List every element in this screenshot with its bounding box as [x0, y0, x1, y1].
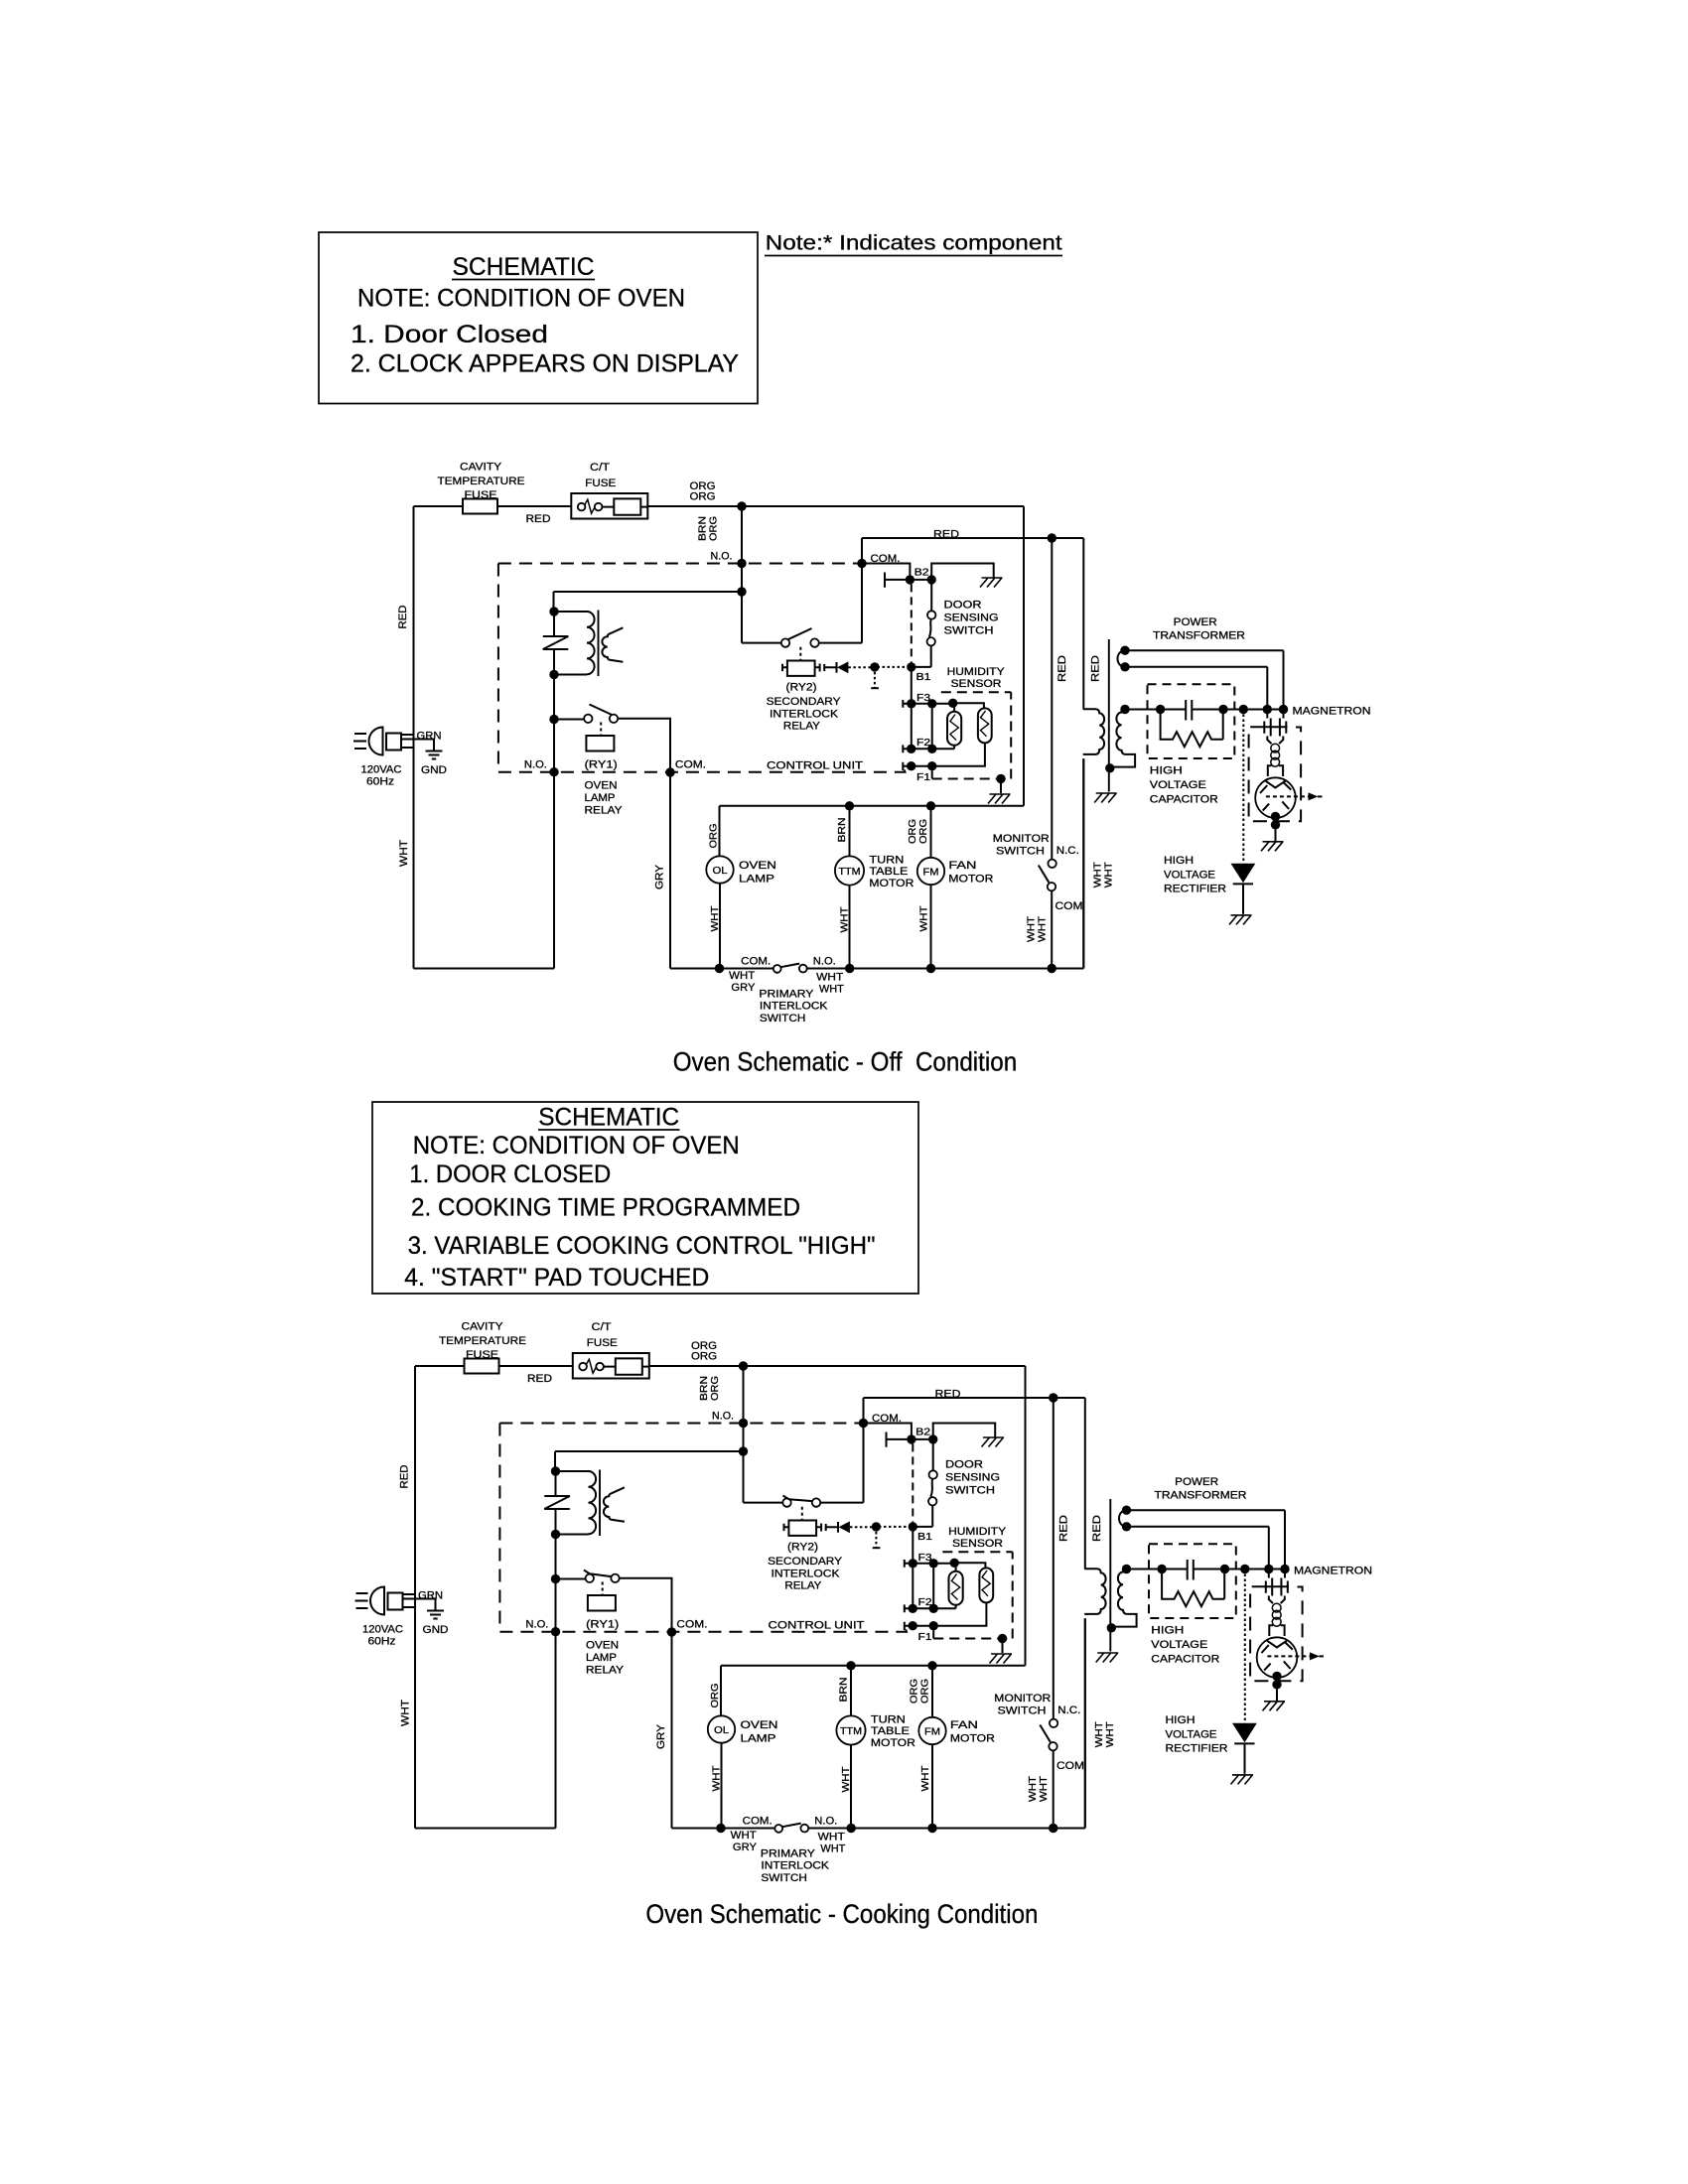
svg-text:MOTOR: MOTOR	[950, 1732, 995, 1744]
wire F2 row	[909, 1607, 956, 1609]
filament leads brace	[1119, 1510, 1127, 1527]
wire RT2 to F1 corner	[909, 1602, 987, 1625]
svg-text:GRY: GRY	[731, 982, 756, 994]
svg-text:WHT: WHT	[731, 1830, 757, 1842]
svg-text:RED: RED	[1058, 1515, 1070, 1542]
switch door sensing top contact	[927, 611, 935, 618]
svg-text:WHT: WHT	[819, 984, 844, 996]
svg-text:VOLTAGE: VOLTAGE	[1150, 779, 1206, 791]
wire outer box right edge	[1025, 1366, 1027, 1666]
wire HV line	[1125, 709, 1284, 711]
svg-text:SCHEMATIC: SCHEMATIC	[538, 1104, 679, 1132]
node cap left	[1157, 1565, 1166, 1573]
wire N.O. dashed line	[498, 563, 862, 565]
wire COM to B2 corner	[864, 1424, 912, 1439]
note box 2 border	[372, 1102, 918, 1294]
fuse F2 C/T fuse box	[573, 1353, 649, 1379]
wire N.O. dashed line	[499, 1423, 863, 1425]
thermistor RT2 capsule	[978, 708, 992, 743]
ground chassis B2	[980, 578, 1003, 588]
node relay line junction	[739, 1446, 748, 1455]
wire F3 to right capsule	[954, 1563, 985, 1568]
wire to RY1 contact	[554, 719, 584, 721]
switch monitor COM contact	[1049, 1742, 1056, 1750]
node N.O./BRN junction	[737, 559, 746, 568]
wire rail between fuses	[497, 505, 571, 507]
wire bottom-left rail	[414, 968, 555, 970]
svg-text:B2: B2	[915, 1427, 931, 1437]
wire rail between fuses	[499, 1365, 573, 1367]
wire junction to B1	[878, 666, 910, 668]
wire TTM drop upper	[850, 1666, 852, 1716]
wire rectifier to ground	[1244, 1743, 1246, 1773]
svg-text:HIGH: HIGH	[1166, 1714, 1196, 1726]
magnetron output arrow	[1266, 795, 1309, 797]
dashed vertical B2-B1	[911, 584, 913, 662]
svg-text:ORG: ORG	[709, 823, 720, 848]
magnetron cathode coil	[1271, 744, 1280, 752]
switch monitor blade	[1039, 866, 1050, 883]
svg-text:RED: RED	[935, 1389, 961, 1401]
node F2 mid	[929, 1604, 938, 1613]
RY2 left connector pin	[782, 664, 787, 671]
wire WHT right vertical	[1084, 1618, 1086, 1828]
svg-text:BRN: BRN	[698, 516, 709, 541]
switch RY2 blade closed	[783, 1496, 815, 1502]
RY2 actuator dashed stub	[799, 647, 801, 661]
magnetron filament terminals	[1250, 719, 1287, 737]
wire GRN to ground	[403, 1599, 436, 1610]
svg-text:SCHEMATIC: SCHEMATIC	[453, 253, 595, 281]
transformer T2 primary coil	[1084, 1569, 1105, 1614]
magnetron dashed box	[1250, 1587, 1303, 1682]
svg-text:TURN: TURN	[869, 854, 904, 866]
fuse element squiggle	[578, 503, 586, 511]
F2 connector pin	[903, 745, 907, 752]
wire F3 to right capsule	[953, 703, 984, 708]
F3 connector pin	[905, 1560, 909, 1568]
node COM junction GRY	[665, 767, 674, 776]
svg-text:RED: RED	[399, 1464, 411, 1488]
svg-text:CAVITY: CAVITY	[462, 1321, 504, 1333]
wire B2 row	[910, 579, 931, 581]
F3 connector pin	[903, 700, 907, 708]
wire outer box bottom edge	[720, 805, 1025, 807]
node OL rail junction	[715, 964, 724, 973]
capacitor C1 plates	[1186, 700, 1192, 721]
wire B2 to door switch	[932, 1443, 934, 1470]
wire RY1 to GRY corner	[620, 1578, 672, 1632]
switch door sensing blade	[929, 619, 931, 637]
node humidity ground junction	[996, 774, 1005, 783]
node F3 mid	[927, 699, 936, 708]
resistor R1 bleeder	[1162, 1570, 1224, 1607]
svg-text:OVEN: OVEN	[586, 1640, 619, 1652]
node N.O. bottom junction	[549, 767, 558, 776]
svg-text:Oven Schematic - Cooking Condi: Oven Schematic - Cooking Condition	[645, 1899, 1038, 1929]
switch RY2 left contact	[782, 1498, 790, 1506]
svg-text:MONITOR: MONITOR	[993, 833, 1050, 845]
wire monitor vertical	[1053, 1398, 1055, 1719]
node rail/BRN junction	[737, 501, 746, 510]
wire plug neutral to WHT vertical	[401, 747, 414, 749]
svg-text:WHT: WHT	[1027, 916, 1038, 942]
switch door sensing bottom contact	[927, 637, 935, 645]
node FM rail junction	[927, 1661, 936, 1670]
svg-text:GRN: GRN	[418, 1590, 443, 1602]
wire B1 to F3	[911, 671, 913, 699]
node B2 left	[906, 575, 914, 584]
switch RY1 left contact	[586, 1574, 594, 1582]
svg-text:INTERLOCK: INTERLOCK	[761, 1860, 829, 1872]
wire bottom rail left	[670, 968, 774, 970]
svg-text:N.C.: N.C.	[1057, 1705, 1080, 1716]
transformer T2 secondary coil	[1113, 709, 1135, 767]
svg-text:RELAY: RELAY	[585, 805, 624, 817]
svg-text:BRN: BRN	[837, 818, 848, 843]
svg-text:ORG: ORG	[710, 1376, 721, 1401]
svg-text:COM.: COM.	[741, 956, 771, 968]
wire B2 row	[912, 1438, 933, 1440]
magnetron diagonal ticks	[1262, 1642, 1293, 1671]
ground GND symbol	[427, 1611, 444, 1619]
wire rectifier vertical	[1244, 1570, 1246, 1723]
node monitor bottom junction	[1048, 964, 1056, 973]
svg-text:WHT: WHT	[1093, 862, 1104, 887]
wire FM drop upper	[930, 806, 932, 858]
wire RT1 to F2	[953, 746, 955, 750]
switch interlock left contact	[774, 965, 781, 973]
svg-text:TABLE: TABLE	[869, 866, 908, 878]
svg-text:WHT: WHT	[1094, 1721, 1105, 1747]
svg-text:2. COOKING TIME PROGRAMMED: 2. COOKING TIME PROGRAMMED	[411, 1193, 800, 1221]
wire B2 to chassis ground	[931, 564, 994, 580]
svg-text:CONTROL UNIT: CONTROL UNIT	[769, 1620, 865, 1632]
svg-text:INTERLOCK: INTERLOCK	[760, 1001, 828, 1013]
svg-text:ORG: ORG	[690, 491, 716, 503]
node N.O. bottom junction	[551, 1627, 560, 1636]
node HV secondary	[1120, 705, 1129, 714]
node monitor bottom junction	[1049, 1824, 1057, 1833]
switch RY1 blade open	[590, 705, 617, 718]
svg-text:ORG: ORG	[710, 1683, 721, 1707]
magnetron diagonal ticks	[1260, 782, 1291, 811]
svg-text:RED: RED	[527, 1373, 552, 1385]
wire door switch to B1 corner	[912, 646, 931, 667]
transformer T1 core	[599, 1470, 601, 1537]
wire filament feeds	[1267, 710, 1283, 745]
svg-text:WHT: WHT	[1028, 1776, 1039, 1802]
AC plug P1	[355, 1587, 403, 1615]
svg-text:ORG: ORG	[908, 819, 918, 844]
motor TTM circle	[835, 856, 864, 885]
node TTM rail junction	[845, 801, 854, 810]
wire magnetron to ground	[1275, 817, 1277, 842]
node magnetron box bottom	[1272, 1680, 1281, 1689]
svg-text:WHT: WHT	[816, 972, 843, 984]
wire top rail right	[649, 1365, 1026, 1367]
svg-text:3. VARIABLE COOKING CONTROL "H: 3. VARIABLE COOKING CONTROL "HIGH"	[408, 1232, 876, 1260]
svg-text:120VAC: 120VAC	[362, 1624, 403, 1636]
svg-text:WHT: WHT	[919, 906, 930, 932]
svg-text:ORG: ORG	[709, 516, 720, 541]
switch RY2 left contact	[781, 638, 789, 646]
svg-text:CAVITY: CAVITY	[460, 462, 502, 474]
svg-text:4. "START" PAD TOUCHED: 4. "START" PAD TOUCHED	[404, 1264, 709, 1292]
transformer T2 secondary coil	[1115, 1569, 1137, 1627]
svg-text:FUSE: FUSE	[587, 1337, 618, 1349]
node B2 left	[907, 1434, 915, 1443]
wire GRY vertical	[671, 1632, 673, 1829]
diode D2 HV rectifier	[1232, 1723, 1257, 1743]
wire HV line	[1127, 1569, 1286, 1570]
wire magnetron to ground	[1276, 1677, 1278, 1702]
svg-text:COM: COM	[1055, 900, 1083, 912]
ground chassis magnetron	[1261, 842, 1284, 852]
svg-text:RECTIFIER: RECTIFIER	[1164, 884, 1226, 895]
motor FM circle	[918, 1717, 945, 1744]
wire RT1 to F2	[955, 1605, 957, 1609]
transformer T1 core	[598, 611, 600, 677]
svg-text:TTM: TTM	[839, 867, 861, 878]
svg-text:VOLTAGE: VOLTAGE	[1164, 869, 1215, 881]
HV capacitor dashed box	[1148, 684, 1235, 758]
svg-text:RED: RED	[1091, 1515, 1103, 1542]
svg-text:SWITCH: SWITCH	[996, 846, 1045, 858]
wire humidity to ground	[1000, 779, 1002, 794]
wire relay coil feed	[555, 1451, 744, 1471]
wire GRN to ground	[401, 740, 434, 751]
wire TTM drop upper	[849, 806, 851, 857]
svg-text:MAGNETRON: MAGNETRON	[1294, 1566, 1372, 1577]
svg-text:(RY1): (RY1)	[585, 759, 618, 771]
svg-text:LAMP: LAMP	[586, 1652, 617, 1664]
svg-text:RED: RED	[526, 513, 551, 525]
lamp OL circle	[706, 856, 733, 883]
svg-text:MONITOR: MONITOR	[994, 1693, 1051, 1705]
node F2 left	[907, 745, 915, 753]
svg-text:GRN: GRN	[417, 731, 442, 743]
svg-text:C/T: C/T	[590, 462, 610, 474]
transformer T1 primary coil	[554, 612, 595, 675]
svg-text:N.O.: N.O.	[814, 1816, 837, 1828]
svg-text:TURN: TURN	[871, 1713, 906, 1725]
magnetron filament terminals	[1252, 1578, 1289, 1596]
svg-text:F2: F2	[918, 1597, 933, 1608]
svg-text:CONTROL UNIT: CONTROL UNIT	[767, 760, 863, 772]
svg-text:LAMP: LAMP	[741, 1732, 776, 1744]
control unit dashed bottom edge	[499, 1626, 907, 1632]
B2 connector pin	[885, 573, 906, 588]
wire plug hot to RED vertical	[403, 1593, 416, 1595]
svg-text:WHT: WHT	[820, 1843, 845, 1855]
svg-text:1. DOOR CLOSED: 1. DOOR CLOSED	[409, 1160, 611, 1188]
thermistor RT1 capsule	[947, 712, 961, 746]
node cap right	[1218, 705, 1227, 714]
node RY1 feed junction	[549, 715, 558, 724]
wire FM drop upper	[931, 1666, 933, 1717]
svg-text:FM: FM	[924, 1726, 940, 1737]
magnetron V notch	[1267, 1640, 1288, 1647]
wire RT2 to F1 corner	[907, 743, 985, 765]
svg-text:RELAY: RELAY	[784, 1580, 822, 1592]
wire F2 row	[907, 748, 954, 750]
RY2 left connector pin	[784, 1524, 789, 1531]
svg-text:OVEN: OVEN	[585, 780, 618, 792]
svg-text:HIGH: HIGH	[1164, 855, 1194, 867]
wire junction to B1	[879, 1526, 911, 1528]
node magnetron F lead	[1263, 705, 1272, 714]
wire RED right vertical	[1082, 538, 1084, 709]
svg-text:WHT: WHT	[1105, 1721, 1116, 1747]
wire RY2 to RED riser	[820, 1398, 863, 1503]
svg-text:NOTE: CONDITION OF OVEN: NOTE: CONDITION OF OVEN	[357, 285, 685, 313]
svg-text:VOLTAGE: VOLTAGE	[1151, 1639, 1207, 1651]
switch monitor COM contact	[1048, 883, 1055, 890]
svg-text:B1: B1	[917, 1532, 933, 1543]
switch RY1 left contact	[584, 715, 592, 723]
wire WHT vertical x558	[555, 1535, 557, 1829]
node magnetron F lead	[1264, 1565, 1273, 1573]
svg-text:WHT: WHT	[1038, 916, 1049, 942]
capacitor C1 plates	[1188, 1560, 1194, 1580]
svg-text:POWER: POWER	[1174, 616, 1217, 628]
svg-text:SENSOR: SENSOR	[952, 1538, 1003, 1550]
svg-text:WHT: WHT	[712, 1766, 723, 1792]
svg-text:TEMPERATURE: TEMPERATURE	[438, 476, 525, 487]
RY2 junction stub	[875, 1527, 877, 1548]
lamp OL circle	[708, 1715, 735, 1742]
wire F3 row	[909, 1563, 952, 1565]
wire to RY2 contact	[742, 642, 781, 644]
svg-text:DOOR: DOOR	[945, 1459, 983, 1471]
wire COM to B2 corner	[862, 564, 910, 580]
wire plug hot to RED vertical	[401, 734, 414, 736]
svg-text:TTM: TTM	[840, 1726, 862, 1737]
humidity box dashed edges	[933, 1552, 1013, 1638]
wire RED right vertical	[1084, 1398, 1086, 1569]
motor TTM circle	[836, 1715, 865, 1744]
node transformer primary bottom	[551, 1530, 560, 1539]
wire F3-F2 left vertical	[911, 708, 913, 745]
svg-text:SECONDARY: SECONDARY	[768, 1556, 843, 1568]
svg-text:TABLE: TABLE	[871, 1725, 910, 1737]
control unit dashed left edge	[498, 1424, 500, 1631]
magnetron funnel	[1269, 1625, 1284, 1636]
node transformer primary top	[549, 607, 558, 615]
wire WHT right vertical	[1082, 758, 1084, 968]
svg-text:2. CLOCK APPEARS ON DISPLAY: 2. CLOCK APPEARS ON DISPLAY	[351, 350, 739, 378]
motor FM circle	[917, 858, 944, 885]
svg-text:PRIMARY: PRIMARY	[759, 989, 814, 1001]
node filament lead bottom	[1120, 662, 1129, 671]
magnetron output arrow	[1267, 1655, 1310, 1657]
thermistor RT2 capsule	[979, 1568, 993, 1602]
thermal cutout zigzag	[544, 1476, 570, 1531]
svg-text:RED: RED	[1090, 655, 1102, 682]
node transformer primary bottom	[549, 670, 558, 679]
node F3 mid	[929, 1559, 938, 1568]
svg-text:WHT: WHT	[398, 840, 410, 867]
note box 1 border	[319, 232, 758, 404]
switch RY1 right contact	[611, 1574, 619, 1582]
svg-text:COM.: COM.	[743, 1816, 773, 1828]
node F1 mid	[929, 1621, 938, 1630]
wire filament lead 2	[1125, 667, 1267, 705]
svg-text:1. Door Closed: 1. Door Closed	[351, 321, 548, 348]
svg-text:(RY1): (RY1)	[586, 1619, 619, 1631]
wire rectifier to ground	[1242, 884, 1244, 913]
node rectifier tap	[1239, 705, 1248, 714]
wire B2 to door switch	[930, 584, 932, 611]
fuse cartridge rect	[614, 498, 640, 514]
transformer T1 secondary	[604, 1487, 625, 1522]
svg-text:GRY: GRY	[654, 864, 666, 889]
wire OL drop lower	[719, 884, 721, 969]
transformer T2 core and ground wire	[1109, 1499, 1111, 1652]
wire left vertical RED/WHT	[414, 1366, 416, 1829]
svg-text:GND: GND	[421, 764, 447, 776]
magnetron V1 tube circle	[1255, 777, 1296, 818]
wire top rail left	[414, 505, 464, 507]
svg-text:WHT: WHT	[1104, 862, 1115, 887]
svg-text:N.O.: N.O.	[711, 551, 733, 563]
wire FM drop lower	[931, 1744, 933, 1828]
svg-text:RED: RED	[397, 605, 409, 628]
node COM dashed junction	[857, 559, 866, 568]
wire F3 row	[907, 703, 950, 705]
oven schematic cooking condition	[355, 1321, 1373, 1885]
wire OL drop upper	[719, 806, 721, 857]
svg-text:COM.: COM.	[675, 759, 706, 771]
svg-text:SENSING: SENSING	[944, 613, 999, 624]
node RY2 output junction	[870, 662, 879, 671]
svg-text:SENSOR: SENSOR	[951, 678, 1002, 690]
svg-text:F3: F3	[916, 693, 931, 704]
wire BRN ORG vertical	[743, 1366, 745, 1503]
B2 connector pin	[887, 1433, 908, 1447]
svg-text:(RY2): (RY2)	[786, 682, 817, 694]
RY1 actuator dashed stub	[600, 723, 602, 737]
wire bottom rail right	[807, 758, 1084, 968]
ground chassis rectifier	[1231, 1775, 1254, 1785]
svg-text:N.O.: N.O.	[813, 956, 836, 968]
svg-text:SWITCH: SWITCH	[998, 1706, 1047, 1717]
node TTM rail junction	[846, 1661, 855, 1670]
wire humidity to ground	[1002, 1639, 1004, 1654]
wire WHT vertical x558	[553, 675, 555, 969]
svg-text:C/T: C/T	[592, 1321, 612, 1333]
svg-text:WHT: WHT	[710, 906, 721, 932]
AC plug P1	[353, 728, 401, 755]
svg-text:DOOR: DOOR	[944, 600, 982, 612]
svg-text:HIGH: HIGH	[1151, 1625, 1184, 1637]
humidity box dashed edges	[932, 692, 1012, 778]
wire OL drop upper	[720, 1666, 722, 1716]
wire TTM drop lower	[850, 1745, 852, 1829]
node FM rail junction	[926, 801, 935, 810]
node F2 mid	[927, 745, 936, 753]
wire filament feeds	[1269, 1570, 1285, 1604]
svg-text:RELAY: RELAY	[783, 721, 821, 733]
node cap left	[1156, 705, 1165, 714]
node F1 mid	[927, 761, 936, 770]
svg-text:SENSING: SENSING	[945, 1472, 1000, 1484]
svg-text:(RY2): (RY2)	[787, 1542, 818, 1554]
node transformer primary top	[551, 1466, 560, 1475]
node N.O./BRN junction	[739, 1419, 748, 1428]
node RY2 output junction	[872, 1522, 881, 1531]
